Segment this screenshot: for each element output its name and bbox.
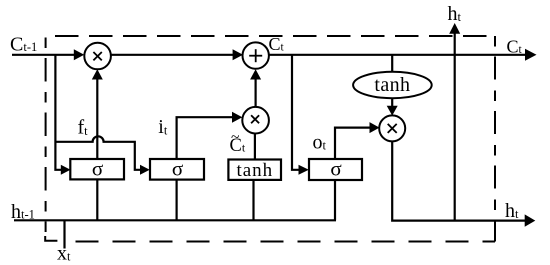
wire: C line down into tanh ellipse bbox=[391, 55, 393, 73]
multiply node H (output gate product) bbox=[379, 115, 405, 141]
wire: C(t-1) input into multiply node with arrowhead bbox=[12, 49, 84, 60]
svg-text:it: it bbox=[158, 116, 168, 138]
wire: C(t) output line to right edge with arrowhead bbox=[269, 49, 537, 61]
svg-text:Ct-1: Ct-1 bbox=[10, 33, 37, 55]
svg-text:ot: ot bbox=[313, 132, 327, 154]
wire: h(t-1) input line along bottom bbox=[14, 219, 336, 221]
svg-text:~: ~ bbox=[231, 129, 239, 146]
cell boundary dashed border right bbox=[494, 36, 496, 242]
wire: h line up into tanh box bottom bbox=[252, 180, 254, 221]
gate sigma1 (forget gate) box bbox=[70, 157, 124, 181]
wire: multiply node I output up into add node with arrowhead bbox=[250, 69, 261, 107]
wire: branch with hop over sigma1 output, down into sigma2 input with arrowhead bbox=[55, 136, 149, 174]
svg-text:ht: ht bbox=[505, 200, 519, 222]
wire: h line up into sigma3 bottom bbox=[334, 180, 336, 221]
wire: sigma3 output up and right into multiply node H with arrowhead bbox=[335, 122, 380, 159]
wire: sigma2 output up and right into multiply node I with arrowhead bbox=[177, 112, 243, 160]
gate sigma3 (output gate) box bbox=[309, 157, 362, 181]
svg-text:ht-1: ht-1 bbox=[11, 201, 35, 223]
svg-text:σ: σ bbox=[172, 157, 183, 181]
gate sigma2 (input gate) box bbox=[150, 157, 204, 181]
wire: tanh box output up to multiply node I bbox=[254, 133, 256, 160]
svg-text:σ: σ bbox=[330, 157, 341, 181]
wire: h(t) riser up through top border with arrowhead bbox=[449, 23, 460, 221]
multiply node F (forget gate product) bbox=[84, 43, 111, 70]
cell boundary dashed border top bbox=[46, 35, 495, 37]
wire: h line up into sigma1 bottom bbox=[96, 180, 98, 221]
svg-text:Ct: Ct bbox=[507, 37, 523, 57]
svg-text:ht: ht bbox=[448, 3, 462, 25]
wire: x(t) input stub bbox=[63, 220, 65, 248]
wire: h line up into sigma2 bottom bbox=[176, 180, 178, 221]
svg-text:ft: ft bbox=[78, 116, 89, 138]
svg-text:xt: xt bbox=[57, 243, 71, 265]
cell boundary dashed border left bbox=[45, 38, 47, 233]
tanh box (candidate) bbox=[228, 160, 281, 182]
tanh ellipse (cell state activation) bbox=[353, 72, 432, 98]
cell boundary dashed border bottom bbox=[45, 236, 57, 241]
wire: multiply node to add node with arrowhead bbox=[111, 49, 243, 60]
add node (cell state update) bbox=[243, 42, 269, 68]
wire: riser from C line down to sigma3 input with arrowhead bbox=[292, 55, 309, 175]
svg-text:tanh: tanh bbox=[236, 160, 273, 181]
svg-text:tanh: tanh bbox=[374, 74, 410, 96]
multiply node I (input gate product) bbox=[242, 107, 269, 134]
wire: left riser from C line down to sigma1 input with arrowhead bbox=[55, 55, 70, 175]
wire: multiply node H output down and right as h(t) with arrowhead bbox=[392, 141, 535, 227]
wire: sigma1 output up into multiply node with arrowhead bbox=[92, 69, 103, 159]
label C-tilde(t) bbox=[230, 129, 246, 156]
svg-text:σ: σ bbox=[92, 157, 103, 181]
wire: tanh ellipse output down into multiply node H with arrowhead bbox=[387, 98, 398, 116]
